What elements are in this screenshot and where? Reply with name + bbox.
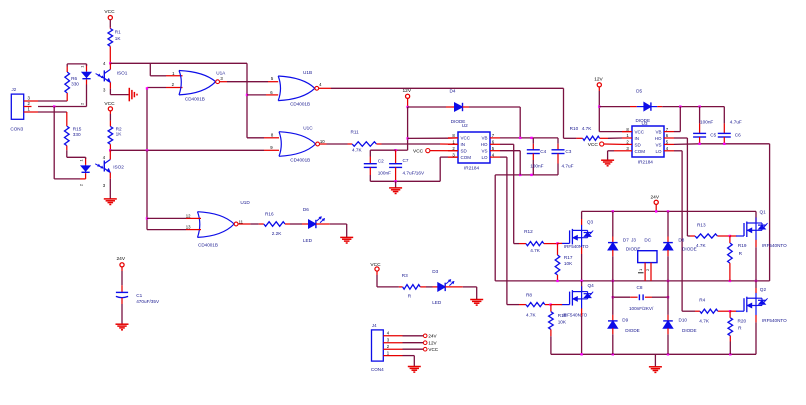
svg-text:12V: 12V (594, 76, 603, 82)
svg-text:VCC: VCC (588, 142, 599, 148)
power VCC at J4 (423, 347, 438, 352)
wire U3 LO to R4 (674, 151, 695, 311)
svg-text:CD4001B: CD4001B (198, 243, 218, 248)
wire U2 COM to ground rail (370, 157, 458, 188)
svg-text:C2: C2 (378, 159, 384, 164)
svg-text:DIODE: DIODE (682, 328, 697, 333)
nor-gate U1A (172, 70, 227, 101)
svg-text:VCC: VCC (104, 101, 115, 107)
wire phase mid rail (495, 280, 769, 282)
transistor Q2 (736, 287, 787, 323)
ground below U3 COM (601, 160, 614, 166)
svg-text:12V: 12V (428, 341, 437, 346)
svg-text:5: 5 (271, 76, 274, 81)
diode D9 (608, 281, 640, 354)
svg-text:1: 1 (387, 350, 390, 355)
transistor Q1 (736, 209, 787, 248)
ground below C7 (389, 188, 402, 194)
svg-text:100nF/2KV/: 100nF/2KV/ (629, 306, 654, 311)
svg-text:CON4: CON4 (371, 367, 384, 372)
wire Q3 drain (581, 211, 583, 225)
connector J4 (371, 323, 403, 372)
power VCC top-left (104, 9, 115, 24)
svg-text:8: 8 (271, 132, 274, 137)
resistor R2 (108, 114, 122, 150)
wire ISO1 LED cathode to J2 pin2 (38, 85, 87, 108)
svg-text:4.7K: 4.7K (699, 319, 710, 324)
svg-text:24V: 24V (428, 334, 437, 339)
capacitor C7 (389, 150, 425, 181)
wire Q4 drain (581, 281, 583, 292)
svg-text:4.7K: 4.7K (526, 312, 537, 317)
ground H-bridge (649, 367, 662, 373)
node ISO2 collector junction (109, 149, 111, 151)
svg-text:4.7K: 4.7K (352, 147, 363, 152)
svg-text:J2: J2 (12, 87, 17, 92)
svg-text:3: 3 (28, 96, 31, 101)
wire Q4 source to bottom rail (581, 308, 583, 354)
resistor R18 (549, 305, 567, 355)
node Q3 gate (556, 242, 562, 244)
capacitor C3 (552, 138, 574, 175)
svg-text:IR2184: IR2184 (464, 165, 480, 170)
wire J2 pin2 down to ISO2 LED cathode (54, 107, 85, 179)
svg-text:CD4001B: CD4001B (185, 96, 205, 101)
svg-text:VB: VB (481, 136, 487, 141)
svg-text:1: 1 (638, 268, 643, 271)
transistor Q4 (562, 283, 595, 318)
svg-text:Q2: Q2 (760, 287, 767, 292)
svg-text:3: 3 (387, 337, 390, 342)
svg-text:U2: U2 (462, 123, 468, 128)
svg-text:330: 330 (73, 132, 81, 137)
svg-text:CD4001B: CD4001B (290, 158, 310, 163)
svg-text:IRF540NTO: IRF540NTO (762, 243, 787, 248)
svg-text:IN: IN (461, 142, 466, 147)
wire U1A pin2 feed (146, 87, 183, 150)
svg-text:2: 2 (387, 344, 390, 349)
svg-text:10K: 10K (558, 320, 567, 325)
svg-text:R2: R2 (116, 126, 122, 131)
svg-text:100nF: 100nF (378, 170, 391, 175)
svg-text:D7: D7 (623, 238, 629, 243)
svg-text:VCC: VCC (104, 9, 115, 15)
svg-text:R17: R17 (564, 255, 573, 260)
node Q2 gate (729, 310, 737, 312)
wire D6 cathode to ground (330, 224, 347, 237)
wire U1B output to R10 column (319, 88, 564, 138)
svg-text:R4: R4 (699, 298, 705, 303)
svg-text:100nF: 100nF (530, 164, 543, 169)
svg-text:100nF: 100nF (700, 119, 713, 124)
resistor R16 (238, 212, 302, 237)
ground below C1 (116, 324, 129, 330)
svg-text:VCC: VCC (413, 148, 424, 154)
resistor R19 (728, 236, 747, 281)
svg-text:1K: 1K (116, 132, 123, 137)
svg-text:D9: D9 (622, 318, 628, 323)
power 12V right (594, 76, 603, 91)
svg-text:C7: C7 (403, 158, 409, 163)
svg-text:C5: C5 (710, 133, 716, 138)
svg-text:4: 4 (319, 82, 322, 87)
svg-text:D4: D4 (450, 88, 456, 93)
wire 24V top rail (582, 210, 756, 212)
svg-text:R1: R1 (115, 30, 121, 35)
svg-text:ISO2: ISO2 (113, 165, 124, 170)
wire D5 cathode to C5/C6 top rail (662, 105, 724, 123)
svg-text:24V: 24V (651, 195, 660, 201)
node Q4 gate (549, 303, 562, 305)
svg-text:U1B: U1B (303, 70, 312, 75)
wire J4 pin2 to VCC (403, 348, 424, 350)
wire Q2 drain from phase (755, 281, 757, 293)
svg-text:J4: J4 (372, 323, 377, 328)
svg-text:R20: R20 (738, 319, 747, 324)
svg-text:D3: D3 (432, 269, 438, 274)
svg-text:1: 1 (80, 65, 85, 68)
svg-text:R8: R8 (526, 293, 532, 298)
resistor R17 (555, 243, 573, 281)
svg-text:DC: DC (644, 238, 651, 243)
capacitor C5 (693, 107, 717, 144)
node ISO1 collector junction (109, 62, 111, 64)
svg-text:IRF540NTO: IRF540NTO (564, 244, 589, 249)
resistor R3 (377, 273, 433, 298)
capacitor C4 (527, 138, 547, 175)
wire U1D input pins from opto node (146, 150, 201, 229)
svg-text:Q4: Q4 (588, 283, 595, 288)
wire R15 to ISO2 LED anode (67, 150, 86, 159)
svg-text:LO: LO (481, 155, 488, 160)
svg-text:4.7K: 4.7K (582, 126, 593, 131)
svg-text:R11: R11 (351, 130, 360, 135)
svg-text:1K: 1K (115, 36, 122, 41)
nor-gate U1C (270, 126, 325, 163)
optocoupler ISO1 (80, 61, 128, 105)
svg-text:D6: D6 (303, 207, 309, 212)
power VCC mid (370, 262, 381, 275)
svg-text:D8: D8 (678, 238, 684, 243)
wire 12V right rail (598, 91, 632, 132)
svg-text:1: 1 (172, 71, 175, 76)
svg-text:VCC: VCC (635, 130, 645, 135)
svg-text:4.7uF/16V: 4.7uF/16V (403, 170, 426, 175)
svg-text:C4: C4 (540, 149, 546, 154)
svg-text:IRF540NTO: IRF540NTO (762, 318, 787, 323)
wire U2 VB to bootstrap caps (500, 137, 558, 139)
power 12V at J4 (423, 341, 437, 346)
svg-text:3: 3 (103, 87, 106, 92)
wire U1A pin1 feed (150, 63, 182, 76)
svg-text:U1A: U1A (216, 70, 226, 75)
svg-text:LED: LED (432, 300, 442, 305)
wire C1 to ground (121, 304, 123, 324)
svg-text:R: R (738, 326, 742, 331)
svg-text:D10: D10 (679, 318, 688, 323)
wire 12V to U2 VCC pin (408, 137, 458, 140)
svg-text:HO: HO (655, 136, 662, 141)
wire J4 pin3 to 12V (403, 342, 424, 344)
power 24V at J4 (423, 334, 437, 339)
svg-text:VCC: VCC (370, 262, 381, 268)
svg-text:COM: COM (461, 155, 472, 160)
svg-text:R10: R10 (570, 126, 579, 131)
resistor R20 (728, 311, 746, 354)
svg-text:C8: C8 (637, 285, 643, 290)
svg-text:10K: 10K (564, 261, 573, 266)
svg-text:J3: J3 (631, 238, 636, 243)
svg-text:3: 3 (103, 183, 106, 188)
wire Q1 drain (755, 211, 757, 221)
svg-text:470uF/35V: 470uF/35V (136, 299, 160, 304)
svg-text:R6: R6 (71, 76, 77, 81)
resistor R10 (564, 126, 623, 141)
svg-text:12: 12 (186, 214, 191, 219)
svg-text:Q3: Q3 (587, 220, 594, 225)
svg-text:DIODE: DIODE (625, 328, 640, 333)
svg-text:LO: LO (655, 149, 662, 154)
wire rail to ground (654, 354, 656, 366)
connector J2 (10, 87, 31, 132)
wire to U1B pin 6 (247, 94, 278, 96)
svg-text:3: 3 (220, 76, 223, 81)
wire J2 pin1 to R15 (32, 112, 67, 126)
svg-text:C1: C1 (136, 293, 142, 298)
power 12V left (403, 88, 412, 102)
wire bottom rail (551, 353, 756, 355)
svg-text:IN: IN (635, 136, 640, 141)
power VCC above R2 (104, 101, 115, 114)
svg-text:U3: U3 (642, 121, 648, 126)
svg-text:IR2184: IR2184 (638, 159, 654, 164)
diode D10 (663, 281, 696, 354)
capacitor C1 (116, 271, 160, 304)
svg-text:R13: R13 (697, 223, 706, 228)
svg-text:CD4001B: CD4001B (290, 101, 310, 106)
svg-text:10: 10 (320, 139, 325, 144)
svg-text:DIODE: DIODE (682, 247, 697, 252)
svg-text:U1C: U1C (303, 126, 313, 131)
ground right-style at ISO1 (129, 88, 137, 102)
wire J4 pin1 to ground (403, 356, 415, 367)
power VCC port to U2 SD (413, 148, 458, 154)
svg-text:HO: HO (481, 142, 488, 147)
svg-text:1: 1 (28, 107, 31, 112)
resistor R8 (519, 293, 551, 318)
wire U3 HO to R13 (674, 138, 690, 236)
resistor R4 (695, 298, 730, 324)
resistor R12 (519, 229, 558, 253)
svg-text:6: 6 (270, 90, 273, 95)
svg-text:2: 2 (172, 82, 175, 87)
svg-text:4.7uF: 4.7uF (562, 164, 574, 169)
svg-text:VCC: VCC (461, 136, 471, 141)
svg-text:9: 9 (270, 145, 273, 150)
svg-text:R: R (408, 294, 412, 299)
svg-text:4.7K: 4.7K (696, 243, 707, 248)
svg-text:4: 4 (103, 155, 106, 160)
wire U2 VS to rail (500, 151, 520, 175)
capacitor C2 (364, 150, 391, 181)
svg-text:1: 1 (79, 159, 84, 162)
led D6 (302, 207, 330, 243)
wire U3 VS rail to phase right (674, 143, 770, 281)
resistor R6 (65, 64, 79, 96)
diode D4 (408, 88, 469, 124)
transistor Q3 (562, 220, 594, 249)
wire 12V to C2/C7 rail (370, 149, 407, 151)
svg-text:24V: 24V (117, 256, 126, 262)
resistor R15 (65, 126, 82, 150)
wire D3 cathode to ground (463, 287, 477, 299)
svg-text:2: 2 (80, 102, 85, 105)
wire R6 top to ISO1 LED anode (67, 64, 86, 66)
wire U3 COM to ground (608, 151, 622, 160)
wire ISO1 collector to U1 column (110, 62, 247, 64)
svg-text:4: 4 (103, 61, 106, 66)
svg-text:D5: D5 (636, 88, 642, 93)
wire U2 LO to R8 (500, 157, 519, 305)
optocoupler ISO2 (79, 150, 125, 188)
svg-text:4.7K: 4.7K (530, 248, 541, 253)
wire J2 pin3 to R6 (32, 96, 68, 102)
svg-text:4.7uF: 4.7uF (730, 119, 742, 124)
ic U3 IR2184 (622, 121, 674, 165)
diode D7 (608, 211, 640, 281)
svg-text:VCC: VCC (428, 347, 438, 352)
wire J4 pin4 to 24V (403, 335, 424, 337)
svg-text:SD: SD (635, 143, 642, 148)
svg-text:2.2K: 2.2K (272, 231, 283, 236)
connector J3 DC (631, 238, 657, 281)
power 24V left (117, 256, 126, 271)
svg-text:SD: SD (461, 149, 468, 154)
nor-gate U1D (186, 200, 251, 247)
svg-text:VB: VB (655, 130, 661, 135)
wire U1A output to U1B pin5 (220, 76, 279, 95)
svg-text:CON3: CON3 (10, 127, 23, 132)
wire ISO2 collector to U1C pin 9 (110, 149, 279, 151)
svg-text:ISO1: ISO1 (117, 71, 128, 76)
wire vertical to U1B/U1C inputs (246, 63, 248, 138)
svg-text:2: 2 (28, 101, 31, 106)
power VCC port to U3 SD (588, 142, 622, 148)
svg-text:VS: VS (655, 143, 661, 148)
capacitor C6 (718, 119, 742, 144)
svg-text:R18: R18 (558, 313, 567, 318)
wire U3 VB to top rail (674, 107, 680, 132)
wire ISO2 emitter to ground (109, 179, 111, 199)
ground below ISO2 (104, 199, 117, 205)
wire 12V rail junctions (406, 102, 408, 150)
svg-text:R12: R12 (524, 229, 533, 234)
svg-text:4: 4 (387, 331, 390, 336)
diode D5 (599, 88, 662, 123)
ground below D6 (340, 237, 353, 243)
svg-text:330: 330 (71, 81, 79, 86)
svg-text:COM: COM (635, 149, 646, 154)
wire ISO1 emitter to ground (110, 89, 128, 95)
capacitor C8 (612, 285, 670, 311)
svg-text:R3: R3 (402, 273, 408, 278)
svg-text:U1D: U1D (240, 200, 250, 205)
ground below D3 (470, 300, 483, 306)
diode D8 (663, 211, 696, 281)
svg-text:2: 2 (79, 183, 84, 186)
svg-text:Q1: Q1 (760, 209, 767, 214)
svg-text:C3: C3 (565, 149, 571, 154)
wire U2 HO to R12 (500, 144, 519, 243)
power 24V bridge (651, 195, 660, 212)
ground at J4 (408, 367, 421, 373)
svg-text:R: R (739, 251, 743, 256)
svg-text:R16: R16 (265, 212, 274, 217)
svg-text:VS: VS (481, 149, 487, 154)
wire VS bootstrap rail (495, 174, 558, 281)
nor-gate U1B (278, 70, 322, 107)
resistor R1 (108, 24, 121, 63)
svg-text:LED: LED (303, 238, 313, 243)
svg-text:12V: 12V (403, 88, 412, 94)
svg-text:C6: C6 (735, 133, 741, 138)
ic U2 IR2184 (448, 123, 500, 170)
wire Q1 source to phase (755, 240, 757, 281)
svg-text:13: 13 (186, 225, 191, 230)
wire D4 cathode to VB node (469, 107, 520, 138)
svg-text:R19: R19 (738, 243, 747, 248)
wire to U1C pin 8 (247, 137, 279, 139)
wire Q2 source to bottom rail (755, 315, 757, 354)
node Q1 gate (729, 235, 737, 237)
resistor R13 (690, 223, 730, 248)
led D3 (432, 269, 463, 305)
resistor R11 (320, 130, 459, 153)
wire Q3 source to phase (581, 247, 583, 281)
